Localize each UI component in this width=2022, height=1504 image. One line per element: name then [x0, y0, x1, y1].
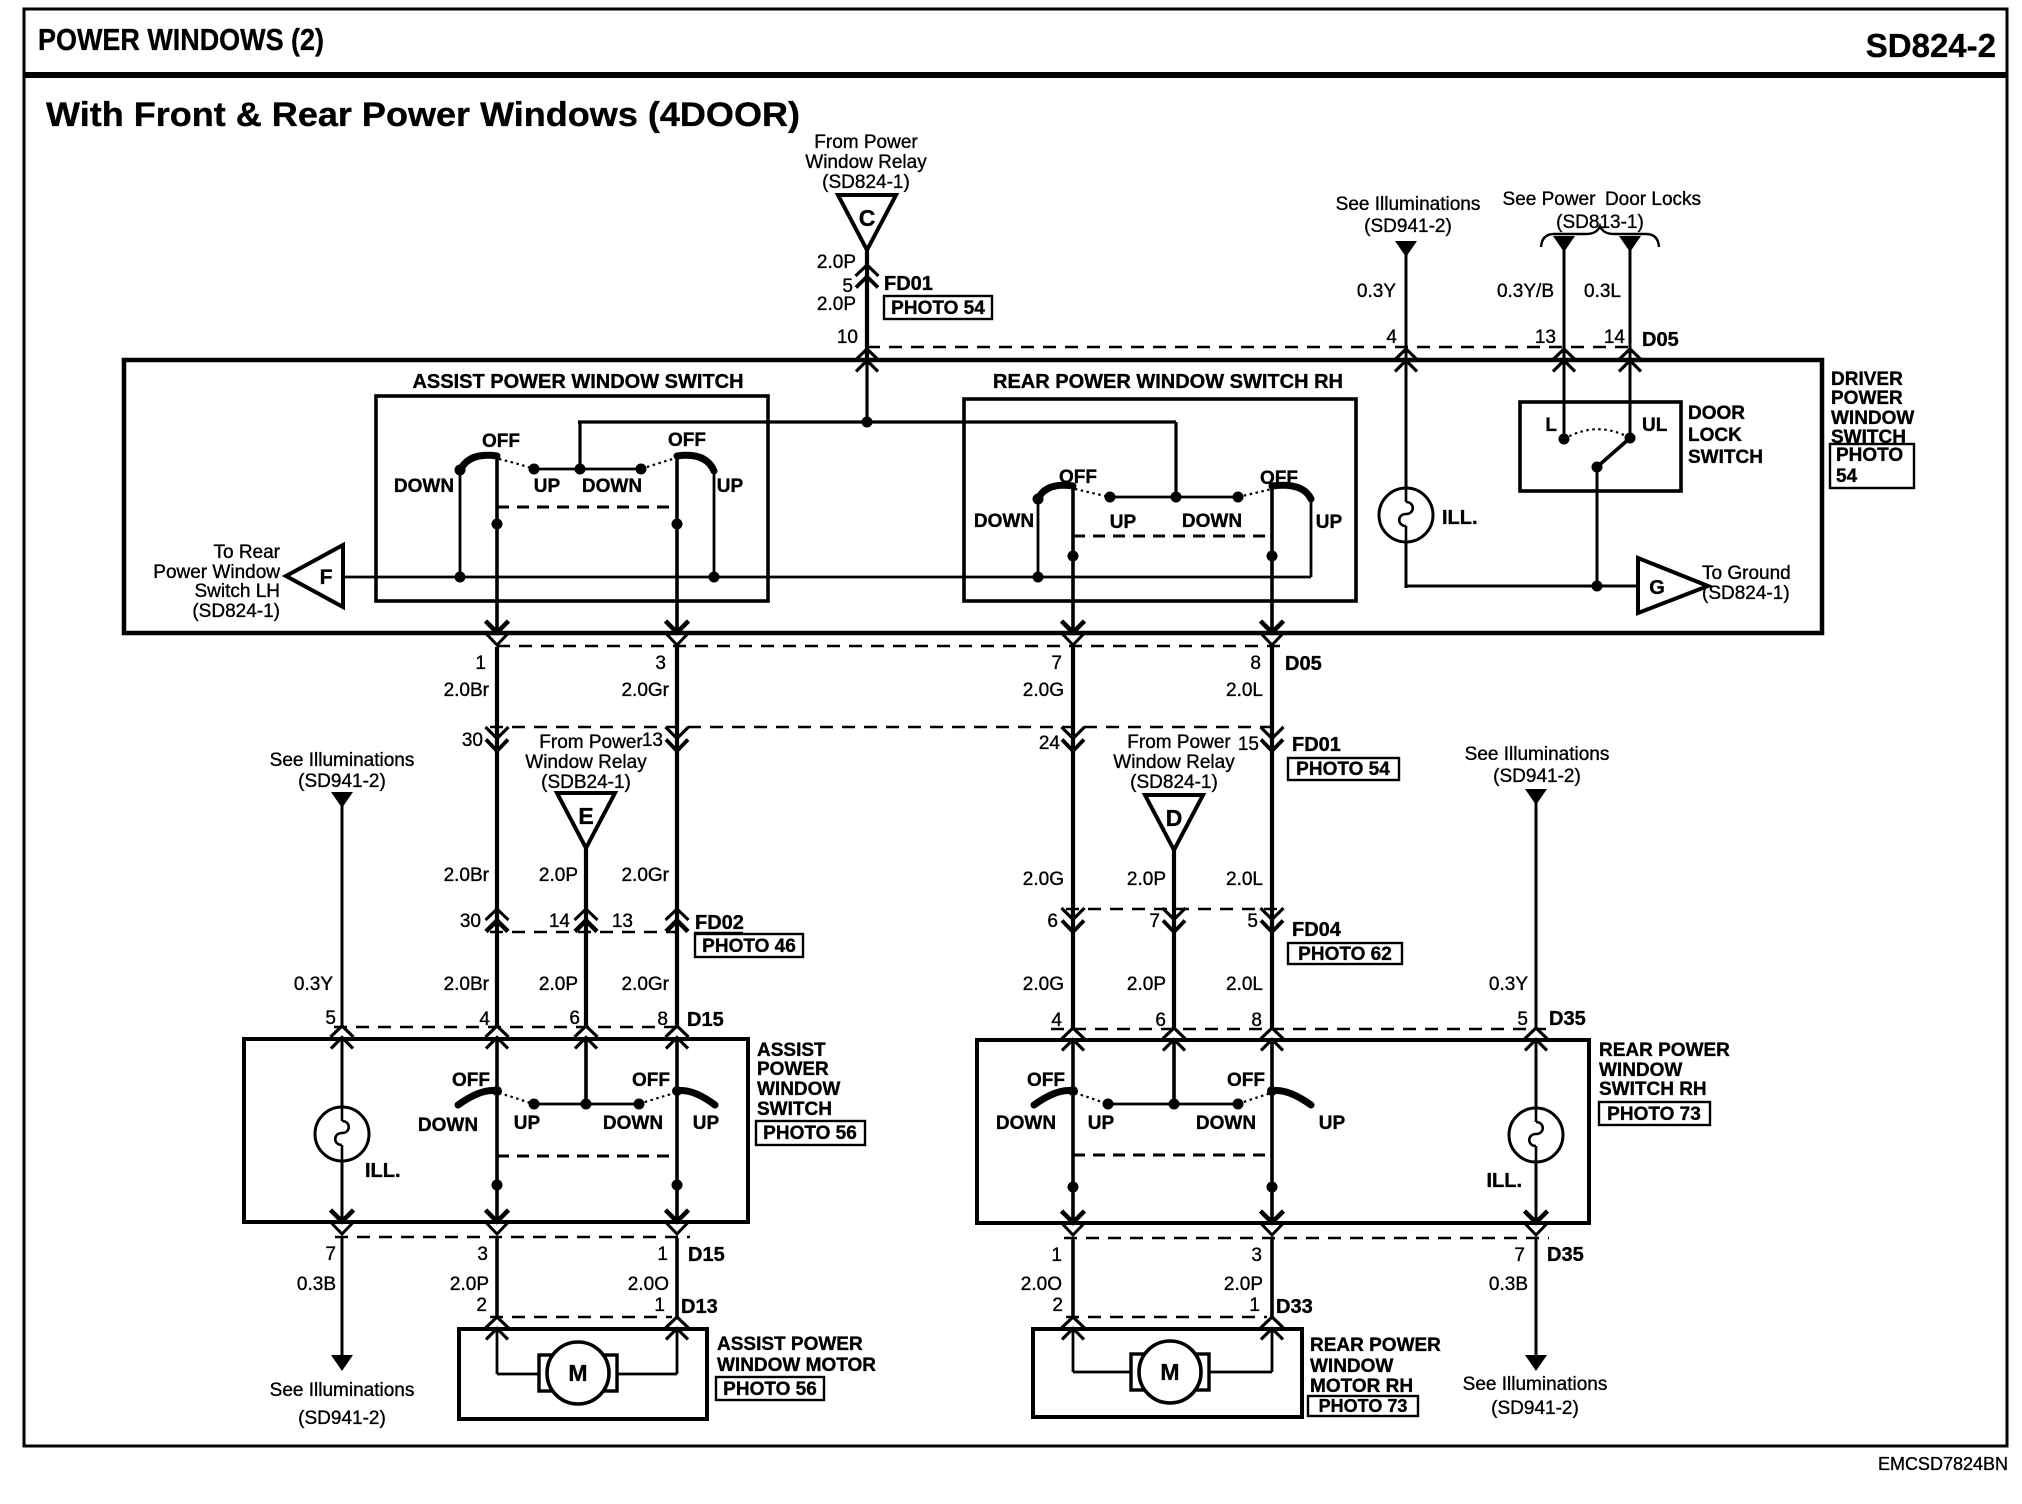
svg-text:1: 1	[657, 1244, 668, 1265]
wire from F through switch boxes	[343, 576, 1311, 579]
svg-text:Window Relay: Window Relay	[805, 152, 927, 173]
lower rear switch 1 dotted to UP	[1075, 1093, 1107, 1104]
svg-text:See Illuminations: See Illuminations	[1336, 194, 1481, 215]
svg-text:2.0P: 2.0P	[817, 252, 856, 273]
svg-text:1: 1	[1051, 1245, 1062, 1266]
svg-text:2.0Br: 2.0Br	[444, 680, 490, 701]
svg-text:4: 4	[479, 1009, 490, 1030]
upper rear UP1 contact	[1105, 492, 1116, 503]
lower assist wire pin8-pin1	[675, 1039, 679, 1222]
svg-text:(SD941-2): (SD941-2)	[1493, 766, 1581, 787]
assist motor internal wires	[497, 1329, 677, 1374]
label ASSIST POWER WINDOW SWITCH (lower)	[757, 1040, 840, 1120]
svg-text:Door Locks: Door Locks	[1605, 189, 1701, 210]
svg-text:PHOTO: PHOTO	[1836, 445, 1903, 466]
svg-text:2.0P: 2.0P	[817, 294, 856, 315]
upper rear switch 1 dotted to UP contact	[1075, 489, 1110, 497]
svg-text:SWITCH: SWITCH	[757, 1099, 832, 1120]
upper assist switch 1 wire (pin 1)	[495, 455, 499, 633]
label From Power Window Relay (SD824-1) right	[1113, 732, 1235, 793]
svg-text:2.0Br: 2.0Br	[444, 974, 490, 995]
svg-text:DOWN: DOWN	[603, 1113, 663, 1134]
wire 2.0P from connector C	[865, 250, 869, 360]
svg-text:1: 1	[1249, 1295, 1260, 1316]
svg-text:13: 13	[642, 730, 663, 751]
svg-text:ASSIST POWER WINDOW SWITCH: ASSIST POWER WINDOW SWITCH	[412, 371, 743, 393]
svg-text:(SD824-1): (SD824-1)	[1130, 772, 1218, 793]
svg-text:PHOTO 62: PHOTO 62	[1298, 944, 1392, 965]
svg-text:15: 15	[1238, 734, 1259, 755]
D13 pin labels	[476, 1295, 665, 1316]
rear power window switch RH sub-box (upper)	[964, 399, 1356, 601]
D05 crossing symbol pin 10	[856, 349, 879, 372]
gauge labels above D33	[1021, 1274, 1528, 1295]
svg-text:ASSIST: ASSIST	[757, 1040, 826, 1061]
svg-text:4: 4	[1386, 327, 1397, 348]
connector D triangle	[1145, 795, 1203, 850]
svg-text:MOTOR RH: MOTOR RH	[1310, 1376, 1413, 1397]
label To Rear Power Window Switch LH (SD824-1)	[153, 542, 280, 622]
svg-text:PHOTO 46: PHOTO 46	[702, 936, 796, 957]
label See Illuminations (SD941-2) top	[1336, 194, 1481, 237]
label REAR POWER WINDOW SWITCH RH (lower)	[1599, 1040, 1730, 1100]
svg-text:54: 54	[1836, 466, 1858, 487]
svg-text:E: E	[578, 803, 593, 829]
D13 entry symbols	[486, 1317, 509, 1340]
door lock dotted arc	[1564, 429, 1630, 439]
connector D13 dashed line	[490, 1316, 672, 1318]
svg-text:OFF: OFF	[668, 430, 706, 451]
upper rear switch 2 up-contact drop wire	[1310, 499, 1313, 577]
wire 0.3Y/B to pin 13	[1563, 248, 1566, 360]
wire dot rear 1	[1068, 551, 1079, 562]
upper assist switch 2 wire (pin 3)	[675, 455, 679, 633]
lower rear mechanical link dashed	[1073, 1154, 1272, 1157]
center junction (rear upper)	[1171, 492, 1182, 503]
svg-text:7: 7	[1051, 653, 1062, 674]
wire 2.0L column	[1270, 647, 1274, 1029]
svg-text:POWER WINDOWS (2): POWER WINDOWS (2)	[38, 22, 324, 57]
label See Illuminations (SD941-2) bottom right	[1463, 1374, 1608, 1419]
svg-text:UP: UP	[1319, 1113, 1346, 1134]
svg-text:0.3Y: 0.3Y	[1489, 974, 1528, 995]
label See Power Door Locks (SD813-1)	[1503, 189, 1702, 233]
ILL wire lower rear	[1535, 1040, 1538, 1223]
svg-text:PHOTO 73: PHOTO 73	[1319, 1396, 1408, 1416]
connector F triangle	[286, 545, 343, 607]
svg-text:DOWN: DOWN	[418, 1115, 478, 1136]
OFF labels lower assist	[452, 1070, 670, 1091]
FD02 crossing pin 30	[486, 909, 509, 932]
FD01 crossing pin 24	[1062, 727, 1085, 751]
svg-text:2.0L: 2.0L	[1226, 869, 1263, 890]
lower rear wire pin4-pin1	[1071, 1040, 1075, 1223]
gauge labels above FD02	[444, 865, 1263, 890]
D05 crossing symbol pin 14	[1619, 349, 1642, 372]
svg-text:See Illuminations: See Illuminations	[1465, 744, 1610, 765]
svg-text:3: 3	[1251, 1245, 1262, 1266]
upper assist switch 1 lever	[460, 455, 497, 471]
svg-text:2.0Br: 2.0Br	[444, 865, 490, 886]
upper rear switch 2 dotted from DOWN2	[1238, 489, 1272, 497]
svg-text:OFF: OFF	[1027, 1070, 1065, 1091]
svg-text:ILL.: ILL.	[1442, 507, 1478, 529]
OFF labels lower rear	[1027, 1070, 1265, 1091]
svg-text:G: G	[1649, 577, 1665, 599]
upper rear switch 1 down-contact drop wire	[1037, 499, 1040, 577]
door lock pivot wire down	[1596, 467, 1599, 586]
ILL lamp (lower rear)	[1509, 1108, 1563, 1162]
wire dot rear 2	[1267, 551, 1278, 562]
svg-text:(SD824-1): (SD824-1)	[822, 172, 910, 193]
lower assist wire dots	[492, 1180, 503, 1191]
FD02 crossing pin 14	[575, 909, 598, 932]
svg-text:ILL.: ILL.	[1486, 1170, 1522, 1192]
label From Power Window Relay (SDB24-1) left	[525, 732, 647, 793]
arrow to door lock wire L	[1553, 236, 1575, 252]
pin labels D05 bottom	[475, 653, 1261, 674]
svg-text:6: 6	[1155, 1010, 1166, 1031]
lower rear UP1 contact	[1103, 1099, 1114, 1110]
svg-text:Power Window: Power Window	[153, 562, 280, 583]
door lock switch box	[1520, 402, 1681, 491]
junction dots on F wire	[455, 572, 466, 583]
svg-text:SWITCH: SWITCH	[1688, 447, 1763, 468]
svg-text:WINDOW MOTOR: WINDOW MOTOR	[717, 1355, 876, 1376]
lower assist link wire	[534, 1103, 639, 1106]
svg-text:0.3B: 0.3B	[1489, 1274, 1528, 1295]
subtitle With Front & Rear Power Windows (4DOOR)	[46, 96, 800, 134]
svg-text:7: 7	[325, 1244, 336, 1265]
lower rear wire pin6 center	[1172, 1040, 1176, 1104]
svg-text:2.0P: 2.0P	[539, 865, 578, 886]
svg-text:PHOTO 56: PHOTO 56	[763, 1123, 857, 1144]
svg-text:DOWN: DOWN	[582, 476, 642, 497]
svg-text:14: 14	[1604, 327, 1626, 348]
upper rear mechanical link dashed	[1073, 535, 1272, 538]
svg-text:(SD813-1): (SD813-1)	[1556, 212, 1644, 233]
D15 entry symbols	[331, 1026, 354, 1049]
junction door-lock/ground wire	[1592, 581, 1603, 592]
lower rear center junction	[1169, 1099, 1180, 1110]
svg-text:To Ground: To Ground	[1702, 563, 1791, 584]
assist motor M	[539, 1342, 617, 1404]
connector FD01 pin 5 symbol	[856, 265, 879, 288]
arrow to See Illuminations bottom left	[331, 1355, 353, 1371]
svg-text:2.0Gr: 2.0Gr	[621, 865, 669, 886]
svg-text:2.0P: 2.0P	[1127, 869, 1166, 890]
arrow to See Illuminations bottom right	[1525, 1355, 1547, 1371]
svg-text:To Rear: To Rear	[213, 542, 280, 563]
svg-text:REAR POWER: REAR POWER	[1599, 1040, 1730, 1061]
svg-text:SWITCH RH: SWITCH RH	[1599, 1079, 1707, 1100]
svg-text:See Illuminations: See Illuminations	[270, 750, 415, 771]
PHOTO 73 box (motor)	[1308, 1396, 1418, 1416]
wire dot assist 2	[672, 519, 683, 530]
svg-text:(SD824-1): (SD824-1)	[192, 601, 280, 622]
D33 pin labels	[1052, 1295, 1260, 1316]
label To Ground (SD824-1)	[1702, 563, 1791, 604]
FD01 middle pin labels	[462, 730, 1259, 755]
svg-text:C: C	[859, 205, 876, 231]
rear power window motor RH box	[1033, 1329, 1302, 1417]
PHOTO 62 box	[1288, 943, 1402, 965]
connector FD01 dashed line (middle)	[490, 726, 1283, 728]
connector D35 dashed line (bottom)	[1064, 1237, 1549, 1239]
arrow from See Illuminations	[1395, 241, 1417, 257]
connector G triangle	[1638, 558, 1708, 613]
svg-text:D15: D15	[687, 1009, 724, 1031]
svg-text:Window Relay: Window Relay	[1113, 752, 1235, 773]
svg-text:ILL.: ILL.	[365, 1160, 401, 1182]
wire 0.3Y mid-left	[341, 803, 344, 1027]
svg-text:DOWN: DOWN	[394, 476, 454, 497]
svg-text:2.0O: 2.0O	[1021, 1274, 1062, 1295]
D33 entry symbols	[1062, 1317, 1085, 1340]
wire 0.3B lower left	[341, 1238, 344, 1356]
svg-text:WINDOW: WINDOW	[1599, 1060, 1682, 1081]
svg-text:(SD941-2): (SD941-2)	[298, 1408, 386, 1429]
svg-text:2.0P: 2.0P	[1127, 974, 1166, 995]
upper assist mechanical link dashed	[497, 506, 677, 509]
lower assist switch 1 lever	[458, 1091, 497, 1105]
label See Illuminations (SD941-2) bottom left	[270, 1380, 415, 1429]
D05 crossing symbol pin 13	[1553, 349, 1576, 372]
upper rear switch 1 wire (pin 7)	[1071, 485, 1075, 633]
svg-text:8: 8	[657, 1009, 668, 1030]
L terminal	[1559, 434, 1570, 445]
svg-text:OFF: OFF	[1260, 468, 1298, 489]
connector E triangle	[557, 793, 615, 848]
svg-text:10: 10	[837, 327, 858, 348]
lower rear wire dots	[1068, 1182, 1079, 1193]
svg-text:PHOTO 73: PHOTO 73	[1607, 1104, 1701, 1125]
svg-text:2: 2	[476, 1295, 487, 1316]
junction feed/C	[862, 417, 873, 428]
svg-text:FD01: FD01	[884, 273, 933, 295]
svg-text:2.0L: 2.0L	[1226, 974, 1263, 995]
svg-text:5: 5	[1517, 1009, 1528, 1030]
svg-text:2.0P: 2.0P	[1224, 1274, 1263, 1295]
svg-text:(SD824-1): (SD824-1)	[1702, 583, 1790, 604]
assist power window switch box (lower)	[244, 1039, 748, 1222]
svg-text:0.3Y/B: 0.3Y/B	[1497, 281, 1554, 302]
D35 pin labels top	[1051, 1009, 1528, 1031]
upper rear switch 2 lever	[1272, 485, 1311, 500]
sheet number SD824-2	[1866, 27, 1996, 64]
svg-text:D35: D35	[1549, 1008, 1586, 1030]
PHOTO 54 box (driver switch)	[1830, 444, 1914, 488]
gauge labels above D15	[444, 974, 1263, 995]
svg-text:UP: UP	[1316, 512, 1343, 533]
svg-text:Window Relay: Window Relay	[525, 752, 647, 773]
connector D15 dashed line (top)	[334, 1026, 684, 1028]
D15 bottom pin labels	[325, 1244, 668, 1265]
connector D15 dashed line (bottom)	[335, 1236, 690, 1238]
PHOTO 46 box	[695, 934, 803, 957]
UL terminal	[1625, 433, 1636, 444]
assist power window motor box	[459, 1329, 707, 1419]
svg-text:D13: D13	[681, 1296, 718, 1318]
svg-text:OFF: OFF	[482, 431, 520, 452]
svg-text:0.3Y: 0.3Y	[294, 974, 333, 995]
See Illuminations (SD941-2) mid-left	[270, 750, 415, 792]
wire 0.3Y mid-right	[1535, 800, 1538, 1029]
label DRIVER POWER WINDOW SWITCH	[1831, 369, 1914, 448]
svg-text:3: 3	[477, 1244, 488, 1265]
svg-text:(SD941-2): (SD941-2)	[1364, 216, 1452, 237]
FD04 crossing pin 7	[1163, 908, 1186, 932]
svg-text:2.0P: 2.0P	[450, 1274, 489, 1295]
svg-text:WINDOW: WINDOW	[1310, 1356, 1393, 1377]
svg-text:PHOTO 54: PHOTO 54	[1296, 759, 1390, 780]
svg-text:PHOTO 54: PHOTO 54	[891, 298, 985, 319]
upper assist switch 2 up-contact drop wire	[713, 471, 716, 577]
wire 0.3Y to driver switch pin 4	[1405, 252, 1408, 360]
D15 exit symbols (bottom of lower assist box)	[331, 1210, 354, 1234]
svg-text:2.0Gr: 2.0Gr	[621, 680, 669, 701]
svg-text:Switch LH: Switch LH	[194, 581, 280, 602]
ILL wire lower assist	[341, 1039, 344, 1222]
FD02 crossing pin 13	[666, 909, 689, 932]
svg-text:0.3B: 0.3B	[297, 1274, 336, 1295]
svg-text:D: D	[1166, 805, 1183, 831]
svg-text:D05: D05	[1642, 329, 1679, 351]
link wire UP1-center-DOWN2 (rear upper)	[1110, 496, 1238, 499]
svg-text:D05: D05	[1285, 653, 1322, 675]
svg-text:M: M	[568, 1360, 587, 1386]
svg-text:OFF: OFF	[1059, 467, 1097, 488]
svg-text:DOWN: DOWN	[1196, 1113, 1256, 1134]
lower rear DOWN2 contact	[1233, 1099, 1244, 1110]
svg-text:FD02: FD02	[695, 912, 744, 934]
lower rear wire pin8-pin3	[1270, 1040, 1274, 1223]
svg-text:See Power: See Power	[1503, 189, 1597, 210]
upper rear switch 2 wire (pin 8)	[1270, 485, 1274, 633]
FD01 crossing pin 30	[486, 727, 509, 751]
upper assist DOWN2 contact	[636, 464, 647, 475]
gauge labels above D13	[297, 1274, 669, 1295]
ILL lamp (lower assist)	[315, 1107, 369, 1161]
svg-text:DOWN: DOWN	[996, 1113, 1056, 1134]
D35 exit symbols (bottom of lower rear box)	[1062, 1211, 1085, 1235]
door lock switch wires L and UL	[1564, 360, 1630, 439]
D05 crossing symbol pin 4	[1395, 349, 1418, 372]
connector D05 dashed line (top)	[867, 346, 1634, 348]
svg-text:SD824-2: SD824-2	[1866, 27, 1996, 64]
svg-text:6: 6	[1047, 911, 1058, 932]
svg-text:UP: UP	[1088, 1113, 1115, 1134]
wire 2.0P to rear motor	[1270, 1238, 1274, 1317]
svg-text:UP: UP	[514, 1113, 541, 1134]
driver power window switch box	[124, 360, 1822, 633]
DOWN/UP labels lower rear	[996, 1113, 1346, 1134]
svg-text:UP: UP	[717, 476, 744, 497]
svg-text:From Power: From Power	[1127, 732, 1231, 753]
svg-text:(SD941-2): (SD941-2)	[298, 771, 386, 792]
svg-text:From Power: From Power	[539, 732, 643, 753]
svg-text:F: F	[320, 566, 333, 589]
svg-text:2.0P: 2.0P	[539, 974, 578, 995]
svg-text:DOOR: DOOR	[1688, 403, 1745, 424]
svg-text:6: 6	[569, 1008, 580, 1029]
svg-text:OFF: OFF	[452, 1070, 490, 1091]
D35 entry symbols	[1062, 1028, 1085, 1051]
svg-text:5: 5	[325, 1008, 336, 1029]
arrow mid-left illumination	[331, 792, 353, 808]
svg-text:D33: D33	[1276, 1296, 1313, 1318]
svg-text:From Power: From Power	[814, 132, 918, 153]
svg-text:D35: D35	[1547, 1244, 1584, 1266]
svg-text:FD04: FD04	[1292, 919, 1342, 941]
svg-text:OFF: OFF	[1227, 1070, 1265, 1091]
FD04 crossing pin 6	[1062, 908, 1085, 932]
svg-text:13: 13	[1535, 327, 1556, 348]
lower assist center junction	[581, 1099, 592, 1110]
PHOTO 56 box (motor)	[716, 1377, 824, 1400]
wire 2.0O to assist motor	[675, 1238, 679, 1317]
svg-text:4: 4	[1051, 1010, 1062, 1031]
svg-text:DOWN: DOWN	[1182, 511, 1242, 532]
2.0P feed wire from C into switch centers	[578, 360, 1176, 497]
brace under See Power Door Locks	[1541, 226, 1659, 247]
upper assist UP1 contact	[529, 464, 540, 475]
svg-text:2.0O: 2.0O	[628, 1274, 669, 1295]
svg-text:D15: D15	[688, 1244, 725, 1266]
svg-text:0.3L: 0.3L	[1584, 281, 1621, 302]
lower rear link wire	[1108, 1103, 1238, 1106]
svg-text:M: M	[1160, 1359, 1179, 1385]
D05 exit symbols bottom of driver box	[486, 621, 509, 645]
svg-text:2: 2	[1052, 1295, 1063, 1316]
svg-text:With Front & Rear Power Window: With Front & Rear Power Windows (4DOOR)	[46, 96, 800, 134]
ground link wire to G	[1406, 584, 1638, 588]
gauge labels below D05	[444, 680, 1263, 701]
arrow mid-right illumination	[1525, 789, 1547, 805]
FD01 crossing pin 15	[1261, 727, 1284, 751]
PHOTO 54 box (middle FD01)	[1288, 758, 1399, 780]
svg-text:2.0L: 2.0L	[1226, 680, 1263, 701]
svg-text:7: 7	[1149, 911, 1160, 932]
D35 bottom pin labels	[1051, 1245, 1525, 1266]
svg-text:UP: UP	[693, 1113, 720, 1134]
upper assist switch 2 lever	[677, 455, 714, 471]
DOOR LOCK SWITCH label	[1688, 403, 1763, 468]
svg-text:(SDB24-1): (SDB24-1)	[541, 772, 631, 793]
svg-text:UP: UP	[534, 476, 561, 497]
svg-text:LOCK: LOCK	[1688, 425, 1742, 446]
svg-text:REAR POWER: REAR POWER	[1310, 1335, 1441, 1356]
lower assist mechanical link dashed	[497, 1155, 677, 1158]
label REAR POWER WINDOW MOTOR RH	[1310, 1335, 1441, 1397]
wire 0.3L to pin 14	[1629, 248, 1632, 360]
lower assist switch 2 lever	[677, 1091, 715, 1105]
svg-text:FD01: FD01	[1292, 734, 1341, 756]
svg-text:See Illuminations: See Illuminations	[1463, 1374, 1608, 1395]
svg-text:UL: UL	[1642, 415, 1668, 436]
rear motor M	[1131, 1341, 1209, 1403]
wire 2.0P from D	[1172, 850, 1176, 1029]
svg-text:1: 1	[475, 653, 486, 674]
title POWER WINDOWS (2)	[38, 22, 324, 57]
svg-text:EMCSD7824BN: EMCSD7824BN	[1878, 1454, 2008, 1474]
svg-text:POWER: POWER	[757, 1059, 829, 1080]
svg-text:PHOTO 56: PHOTO 56	[723, 1379, 817, 1400]
FD04 crossing pin 5	[1261, 908, 1284, 932]
lower assist UP1 contact	[529, 1099, 540, 1110]
svg-text:8: 8	[1251, 1010, 1262, 1031]
wire 2.0O to rear motor	[1071, 1238, 1075, 1317]
